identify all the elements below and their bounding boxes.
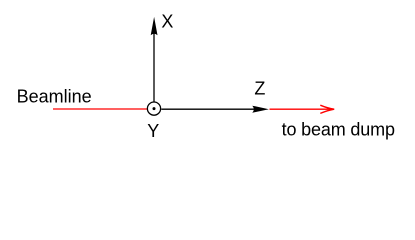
svg-text:to beam dump: to beam dump	[282, 120, 395, 140]
svg-text:Z: Z	[254, 79, 265, 99]
svg-text:Beamline: Beamline	[17, 86, 92, 106]
svg-text:X: X	[161, 12, 173, 32]
svg-text:Y: Y	[147, 121, 159, 141]
